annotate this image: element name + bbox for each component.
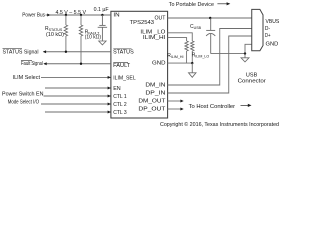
svg-text:OUT: OUT (155, 16, 167, 22)
junction node ground rail (244, 52, 246, 54)
junction node CUSB top (209, 17, 211, 19)
arrowhead EN (points right) (108, 87, 111, 90)
wire: DM_IN to D- riser (168, 29, 252, 86)
overline for STATUS label (3, 47, 23, 49)
overline for Fault label (21, 59, 32, 61)
resistor RILIM_HI (185, 41, 188, 63)
ground for RILIM (189, 73, 197, 78)
capacitor C1 0.1uF (98, 15, 107, 41)
arrowhead FAULT (points left) (43, 62, 46, 65)
wire: CTL2 line (41, 103, 110, 105)
wire: GND pin line (168, 62, 193, 64)
ground stem near connector (244, 54, 246, 58)
ground for C1 (99, 41, 106, 45)
wire: connector GND drop (245, 44, 252, 53)
wire: FAULT line (44, 63, 111, 65)
svg-text:Mode Select I/O: Mode Select I/O (8, 99, 39, 105)
IC U1 TPS2543 body (111, 11, 168, 118)
svg-text:Fault Signal: Fault Signal (21, 61, 43, 67)
svg-text:VBUS: VBUS (266, 19, 280, 25)
capacitor CUSB (206, 18, 215, 53)
wire: CTL3 line (45, 111, 110, 113)
svg-text:Power Switch EN: Power Switch EN (2, 91, 44, 97)
ground for connector (241, 58, 249, 62)
wire: STATUS line (44, 51, 111, 53)
wire: ILIM_LO to RILIM_LO (168, 33, 193, 41)
svg-text:To Host Controller: To Host Controller (189, 104, 236, 110)
svg-text:D-: D- (265, 26, 270, 32)
svg-text:(10 kΩ): (10 kΩ) (46, 32, 64, 38)
svg-text:EN: EN (113, 86, 121, 92)
junction node RSTATUS bottom (65, 51, 67, 53)
wire: DM_OUT stub (168, 100, 181, 102)
svg-text:DM_IN: DM_IN (145, 83, 165, 89)
svg-text:TPS2543: TPS2543 (130, 20, 154, 26)
svg-text:GND: GND (152, 61, 166, 67)
junction node at RFAULT top (80, 14, 82, 16)
svg-text:DM_OUT: DM_OUT (138, 99, 166, 105)
svg-text:0.1 µF: 0.1 µF (94, 7, 109, 13)
svg-text:ILIM Select: ILIM Select (13, 75, 41, 81)
svg-text:CTL 3: CTL 3 (113, 110, 127, 116)
svg-text:CUSB: CUSB (190, 24, 202, 30)
arrowhead ILIM_SEL (points right) (108, 76, 111, 79)
junction node RFAULT bottom (80, 63, 82, 65)
svg-text:IN: IN (113, 13, 119, 19)
wire: CTL1 line (44, 95, 111, 97)
arrowhead DP_OUT (180, 108, 183, 111)
svg-text:ILIM_HI: ILIM_HI (143, 35, 166, 41)
arrow To Host Controller (241, 104, 249, 106)
ground stem below RILIM junction (191, 63, 193, 73)
arrowhead CTL1 (points right) (108, 95, 111, 98)
resistor RILIM_LO (191, 41, 194, 63)
wire: power bus lead (46, 14, 48, 16)
svg-text:Power Bus: Power Bus (22, 13, 45, 19)
wire: ILIM_SEL line (41, 76, 110, 78)
svg-text:CTL 2: CTL 2 (113, 102, 127, 108)
wire: OUT to VBUS (168, 17, 252, 19)
svg-text:(10 kΩ): (10 kΩ) (85, 35, 102, 41)
svg-text:ILIM_SEL: ILIM_SEL (113, 76, 136, 82)
resistor RFAULT (79, 15, 82, 64)
svg-text:RILIM_LO: RILIM_LO (192, 52, 210, 58)
svg-text:DP_IN: DP_IN (145, 91, 165, 97)
wire: ILIM_HI to RILIM_HI (168, 38, 187, 41)
svg-text:STATUS Signal: STATUS Signal (3, 49, 39, 55)
wire: EN line (45, 87, 110, 89)
node: IN power wire (50, 14, 111, 16)
arrowhead STATUS (points left) (43, 50, 46, 53)
wire: DP_IN to D+ riser (168, 36, 252, 93)
arrow To Portable Device (217, 3, 227, 5)
svg-text:RILIM_HI: RILIM_HI (167, 53, 183, 59)
arrowhead CTL2 (points right) (108, 103, 111, 106)
svg-text:FAULT: FAULT (113, 63, 131, 69)
junction node RILIM_LO bottom (191, 62, 193, 64)
svg-text:To Portable Device: To Portable Device (169, 2, 214, 8)
svg-text:GND: GND (266, 42, 279, 48)
arrowhead into IN net (47, 14, 50, 17)
junction node at RSTATUS top (65, 14, 67, 16)
svg-text:Connector: Connector (238, 78, 266, 84)
svg-text:DP_OUT: DP_OUT (138, 107, 166, 113)
arrowhead CTL3 (points right) (108, 111, 111, 114)
svg-text:STATUS: STATUS (113, 50, 134, 56)
svg-text:D+: D+ (265, 33, 271, 39)
wire: DP_OUT stub (168, 108, 181, 110)
USB connector J1 outline (252, 9, 263, 50)
junction node at C1 top (101, 14, 103, 16)
svg-text:CTL 1: CTL 1 (113, 94, 127, 100)
svg-text:Copyright © 2016, Texas Instru: Copyright © 2016, Texas Instruments Inco… (160, 121, 279, 128)
arrowhead DM_OUT (180, 100, 183, 103)
resistor RSTATUS (64, 15, 67, 52)
ground rail from CUSB to connector GND (211, 53, 245, 55)
